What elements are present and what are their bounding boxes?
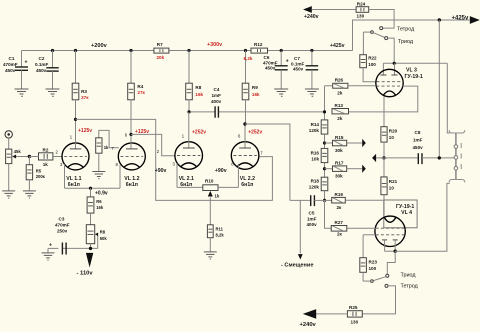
- svg-text:+: +: [25, 60, 28, 66]
- svg-text:1k: 1k: [215, 193, 220, 198]
- svg-text:30k: 30k: [335, 174, 343, 179]
- wire anode bus VL2.1 to ladder: [189, 111, 215, 113]
- wire R22 to VL3 g2: [363, 68, 376, 82]
- capacitor C8: [384, 157, 418, 159]
- svg-text:R18: R18: [311, 179, 320, 184]
- svg-text:R5: R5: [36, 168, 42, 173]
- svg-text:+425v: +425v: [452, 15, 470, 21]
- switch arm VL4 mode: [373, 277, 386, 281]
- svg-text:+: +: [286, 58, 289, 64]
- svg-text:C8: C8: [415, 130, 421, 135]
- svg-text:+252v: +252v: [248, 130, 262, 136]
- VL4 cathode arc: [384, 217, 396, 222]
- wire VL4 to bottom switch: [387, 251, 395, 274]
- svg-text:VL 2.2: VL 2.2: [240, 176, 255, 182]
- svg-text:16k: 16k: [96, 205, 104, 210]
- svg-text:20k: 20k: [157, 55, 165, 60]
- resistor R25: [347, 305, 362, 325]
- svg-text:R24: R24: [357, 1, 366, 6]
- svg-text:R14: R14: [311, 122, 320, 127]
- potentiometer R8 50k: [86, 225, 107, 249]
- tube VL3 ГУ-19-1: [376, 69, 403, 96]
- svg-text:+425v: +425v: [330, 43, 345, 49]
- svg-text:200к: 200к: [36, 174, 46, 179]
- resistor R3: [72, 51, 89, 120]
- wire R25 to +240v: [316, 313, 348, 315]
- svg-text:Триод: Триод: [398, 39, 414, 45]
- svg-text:R8: R8: [100, 230, 106, 235]
- capacitor C5: [290, 195, 325, 227]
- svg-text:VL 2.1: VL 2.1: [179, 176, 194, 182]
- svg-text:C3: C3: [59, 216, 65, 221]
- svg-text:R25: R25: [349, 305, 358, 310]
- resistor R24: [356, 1, 369, 18]
- node C6 top: [280, 49, 283, 52]
- resistor R20: [381, 127, 398, 142]
- svg-text:R13: R13: [335, 103, 344, 108]
- wire R21 to VL4 cathode: [383, 195, 385, 217]
- resistor R21: [381, 158, 398, 195]
- resistor R16: [311, 148, 328, 162]
- resistor R4: [128, 51, 146, 135]
- svg-text:+90v: +90v: [155, 168, 167, 174]
- svg-text:R6: R6: [96, 199, 102, 204]
- svg-text:R17: R17: [335, 161, 344, 166]
- svg-text:10: 10: [389, 135, 395, 140]
- svg-text:450v: 450v: [36, 68, 47, 73]
- svg-text:R20: R20: [389, 129, 398, 134]
- node transformer CT riser: [438, 18, 441, 21]
- ground under 1k: [92, 172, 105, 179]
- grid leak 1k VL1.2: [96, 130, 119, 171]
- svg-text:100: 100: [368, 62, 376, 67]
- capacitor C6: [263, 51, 289, 89]
- node R2/R5 junction: [28, 155, 31, 158]
- svg-text:R26: R26: [335, 78, 344, 83]
- wire +200v/+300v/+425v top rail: [22, 50, 353, 52]
- svg-text:+300v: +300v: [207, 42, 222, 48]
- svg-text:1mF: 1mF: [307, 216, 317, 221]
- ground under R11: [204, 252, 217, 259]
- svg-text:50k: 50k: [100, 236, 108, 241]
- VL4 grid dashes: [376, 227, 405, 229]
- svg-text:450v: 450v: [5, 68, 16, 73]
- wire to R24: [312, 9, 357, 11]
- node R3 top: [74, 49, 77, 52]
- svg-text:+240v: +240v: [304, 14, 319, 20]
- capacitor C3: [48, 216, 70, 254]
- svg-text:- 110v: - 110v: [77, 270, 94, 276]
- ground under C7: [305, 89, 319, 96]
- wire bus to R27: [325, 200, 332, 228]
- svg-text:10k: 10k: [311, 156, 319, 161]
- svg-text:100: 100: [369, 266, 377, 271]
- svg-text:- Смещение: - Смещение: [281, 263, 313, 269]
- svg-text:1k: 1k: [43, 162, 49, 167]
- wire VL3 cathode column: [383, 97, 385, 127]
- svg-text:120k: 120k: [309, 185, 320, 190]
- capacitor C2: [35, 51, 59, 89]
- svg-text:130: 130: [357, 13, 365, 18]
- wire VL1 cathodes: [65, 187, 121, 189]
- resistor R17: [325, 161, 366, 179]
- svg-text:+: +: [49, 242, 52, 248]
- switch contact Триод (top): [385, 37, 388, 40]
- svg-text:VL 1.2: VL 1.2: [124, 176, 139, 182]
- node C7 top: [310, 49, 313, 52]
- node VL1.1 anode: [74, 118, 77, 121]
- resistor R2: [29, 147, 62, 166]
- ground under C2: [46, 89, 60, 96]
- svg-text:+200v: +200v: [91, 43, 108, 49]
- +240v bottom arrow: [303, 309, 316, 319]
- svg-text:R7: R7: [157, 42, 163, 47]
- +425v right arrow: [470, 16, 480, 24]
- wire bias tap: [299, 200, 301, 253]
- wire R24 to tetrode contact: [369, 10, 394, 29]
- transformer core dashes: [460, 143, 462, 169]
- svg-text:2k: 2k: [337, 91, 343, 96]
- VL3 anode pins: [380, 63, 397, 75]
- output transformer winding: [449, 130, 465, 182]
- svg-text:+125v: +125v: [78, 128, 92, 134]
- svg-text:R3: R3: [81, 89, 87, 94]
- svg-text:450v: 450v: [413, 145, 424, 150]
- VL3 grid dashes: [377, 81, 403, 83]
- ground at C3: [42, 253, 55, 260]
- resistor R23: [360, 235, 378, 281]
- svg-text:R8: R8: [195, 85, 201, 90]
- svg-text:2k: 2k: [337, 116, 343, 121]
- svg-text:10: 10: [389, 186, 395, 191]
- switch arm VL3 mode: [363, 31, 370, 33]
- svg-text:+90v: +90v: [215, 168, 227, 174]
- tube VL2.2: [231, 142, 259, 170]
- svg-text:6н1п: 6н1п: [68, 182, 80, 188]
- svg-text:+252v: +252v: [192, 130, 206, 136]
- node VL4 anode junction: [394, 250, 397, 253]
- wire VL4 anode to transformer: [395, 183, 450, 251]
- +240v top arrow: [303, 6, 312, 13]
- svg-text:45k: 45k: [14, 149, 22, 154]
- svg-text:C2: C2: [39, 56, 45, 61]
- svg-text:2к: 2к: [337, 205, 343, 210]
- svg-text:27к: 27к: [81, 95, 89, 100]
- switch contact Тетрод (bottom): [385, 284, 388, 287]
- resistor R18: [309, 177, 328, 191]
- tube VL4 ГУ-19-1: [375, 216, 405, 246]
- svg-text:ГУ-19-1: ГУ-19-1: [405, 74, 423, 80]
- capacitor C1: [3, 51, 28, 89]
- feedback arrow left: [376, 157, 384, 159]
- svg-text:R27: R27: [335, 220, 344, 225]
- svg-text:Тетрод: Тетрод: [401, 284, 419, 290]
- ground under C6: [274, 89, 288, 96]
- svg-text:R21: R21: [389, 179, 398, 184]
- svg-text:470mF: 470mF: [3, 62, 18, 67]
- svg-text:Тетрод: Тетрод: [397, 26, 415, 32]
- svg-text:R22: R22: [368, 56, 377, 61]
- resistor R5: [26, 157, 45, 191]
- node C2 junction: [51, 49, 54, 52]
- ground under C1: [15, 89, 29, 96]
- resistor R19: [325, 192, 385, 210]
- svg-text:27к: 27к: [137, 90, 145, 95]
- svg-text:2к: 2к: [337, 232, 343, 237]
- ladder bus: [325, 85, 333, 87]
- wire VL3 anode top run: [383, 62, 447, 64]
- resistor R6: [87, 188, 104, 225]
- VL3 cathode arc: [383, 91, 395, 95]
- svg-text:VL 3: VL 3: [406, 68, 417, 74]
- wire VL1.1 anode to VL2.2 grid (cross coupling): [76, 119, 273, 200]
- svg-text:120k: 120k: [309, 128, 320, 133]
- svg-text:400v: 400v: [307, 222, 318, 227]
- node transformer center tap: [438, 156, 441, 159]
- resistor R9: [242, 51, 260, 125]
- capacitor C4: [211, 87, 222, 118]
- svg-text:Триод: Триод: [401, 272, 417, 278]
- resistor R14: [309, 120, 328, 134]
- ground under R5: [23, 191, 36, 198]
- svg-text:C5: C5: [309, 211, 315, 216]
- node R4 top: [129, 49, 132, 52]
- bias arrow: [298, 254, 303, 259]
- tube VL2.1: [175, 142, 203, 170]
- svg-text:16k: 16k: [252, 92, 260, 97]
- VL4 label box: [384, 200, 417, 228]
- svg-text:1k: 1k: [104, 145, 109, 150]
- svg-text:VL 1.1: VL 1.1: [66, 176, 81, 182]
- svg-text:130: 130: [351, 320, 359, 325]
- svg-text:+240v: +240v: [300, 322, 317, 328]
- node VL2.2 anode: [243, 122, 246, 125]
- svg-text:R19: R19: [335, 192, 344, 197]
- wire +425v riser and top run: [353, 20, 470, 51]
- svg-text:R2: R2: [43, 147, 49, 152]
- svg-text:6н1п: 6н1п: [241, 182, 253, 188]
- wire Тетрод contact to R25: [362, 286, 395, 314]
- svg-text:R15: R15: [335, 135, 344, 140]
- svg-text:6н1п: 6н1п: [126, 182, 138, 188]
- resistor R12: [244, 42, 268, 61]
- svg-text:+0.9v: +0.9v: [95, 190, 108, 196]
- potentiometer R10: [177, 179, 238, 225]
- input connector: [5, 131, 12, 138]
- svg-text:VL 4: VL 4: [401, 210, 412, 216]
- wire R23 to VL4 grid: [363, 234, 376, 236]
- wire Триод contact to anode node: [388, 38, 395, 63]
- svg-text:R10: R10: [205, 179, 214, 184]
- svg-text:8,2k: 8,2k: [244, 56, 253, 61]
- svg-text:1mF: 1mF: [413, 137, 423, 142]
- node R9 top: [244, 49, 247, 52]
- svg-text:R16: R16: [311, 150, 320, 155]
- svg-text:R4: R4: [137, 84, 143, 89]
- svg-text:0.1mF: 0.1mF: [35, 62, 48, 67]
- wire VL1.2 anode to VL2.1 grid: [131, 134, 175, 155]
- wire switch to R22: [362, 32, 364, 55]
- -110v arrow: [86, 253, 93, 268]
- capacitor C7: [291, 51, 318, 89]
- node VL1.2 anode: [129, 133, 132, 136]
- ground under R1: [2, 191, 15, 198]
- resistor R15: [325, 135, 366, 153]
- node R8 top: [187, 49, 190, 52]
- wire VL3 anode to transformer top: [447, 63, 449, 133]
- VL4 anode pins: [382, 240, 398, 251]
- svg-text:470mF: 470mF: [55, 222, 70, 227]
- svg-text:R9: R9: [252, 85, 258, 90]
- svg-text:400v: 400v: [211, 99, 222, 104]
- svg-text:16k: 16k: [195, 92, 203, 97]
- resistor R7: [154, 42, 169, 60]
- resistor R26: [333, 78, 376, 96]
- svg-text:250v: 250v: [57, 228, 68, 233]
- svg-text:R23: R23: [369, 260, 378, 265]
- resistor R22: [360, 55, 377, 68]
- tube VL1.2: [118, 143, 145, 170]
- svg-text:8,2k: 8,2k: [216, 233, 225, 238]
- resistor R27: [331, 220, 376, 237]
- switch contact Триод (bottom): [386, 274, 389, 277]
- resistor R13: [332, 103, 349, 121]
- potentiometer R1 45k: [6, 149, 30, 191]
- wire VL2.2 anode to C5: [245, 124, 290, 200]
- wire bias node: [62, 247, 97, 249]
- resistor R11: [207, 225, 224, 252]
- svg-text:450v: 450v: [293, 67, 304, 72]
- svg-text:R12: R12: [254, 42, 263, 47]
- node cathode junction: [382, 156, 385, 159]
- svg-text:450v: 450v: [265, 66, 276, 71]
- svg-text:C4: C4: [214, 87, 220, 92]
- switch contact Тетрод (top): [380, 27, 383, 30]
- wire VL3 beam wrap from R13: [349, 86, 418, 112]
- tube VL1.1: [62, 143, 89, 170]
- svg-text:1mF: 1mF: [212, 93, 222, 98]
- svg-text:30k: 30k: [335, 148, 343, 153]
- svg-text:R11: R11: [216, 227, 224, 232]
- resistor R8: [186, 51, 204, 112]
- svg-text:C1: C1: [9, 56, 15, 61]
